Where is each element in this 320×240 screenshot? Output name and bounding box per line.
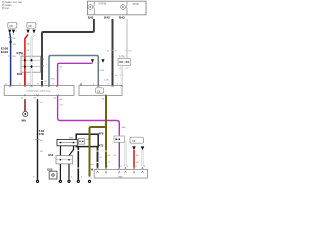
svg-text:4.5B: 4.5B: [99, 70, 104, 72]
svg-text:M: M: [91, 168, 93, 171]
svg-text:E7B: E7B: [39, 132, 44, 136]
svg-text:M9: M9: [22, 118, 26, 122]
svg-text:4M: 4M: [13, 44, 16, 46]
svg-text:C8: C8: [28, 24, 32, 28]
svg-text:4: 4: [36, 24, 37, 26]
svg-text:B43: B43: [88, 16, 94, 20]
svg-text:B42: B42: [104, 16, 110, 20]
svg-text:2DR: 2DR: [5, 8, 10, 10]
svg-text:4M: 4M: [86, 139, 89, 141]
svg-text:E7M: E7M: [17, 51, 24, 55]
svg-text:4R: 4R: [136, 155, 139, 157]
svg-text:W/ABS, 2DR, 4WD: W/ABS, 2DR, 4WD: [5, 1, 23, 4]
svg-text:C8: C8: [9, 24, 13, 28]
svg-text:4T2: 4T2: [99, 143, 104, 147]
svg-text:C8: C8: [132, 139, 136, 143]
svg-text:E06: E06: [17, 72, 23, 76]
svg-text:4G: 4G: [59, 67, 62, 69]
svg-text:4.7M: 4.7M: [19, 55, 24, 57]
svg-text:4F8: 4F8: [99, 132, 104, 136]
svg-text:E109: E109: [1, 50, 8, 54]
svg-text:4.2B: 4.2B: [104, 80, 109, 82]
svg-text:STOP: STOP: [133, 3, 140, 6]
svg-text:5.7M: 5.7M: [119, 55, 124, 58]
svg-text:G03: G03: [47, 168, 53, 172]
svg-text:6.5T/6L: 6.5T/6L: [99, 3, 108, 6]
svg-text:4: 4: [17, 24, 18, 26]
svg-text:G52: G52: [48, 153, 54, 157]
svg-text:4M: 4M: [27, 44, 30, 46]
svg-text:B43: B43: [119, 16, 125, 20]
svg-text:W/ABS: W/ABS: [5, 4, 12, 7]
svg-text:Combination switch assy: Combination switch assy: [26, 89, 51, 92]
